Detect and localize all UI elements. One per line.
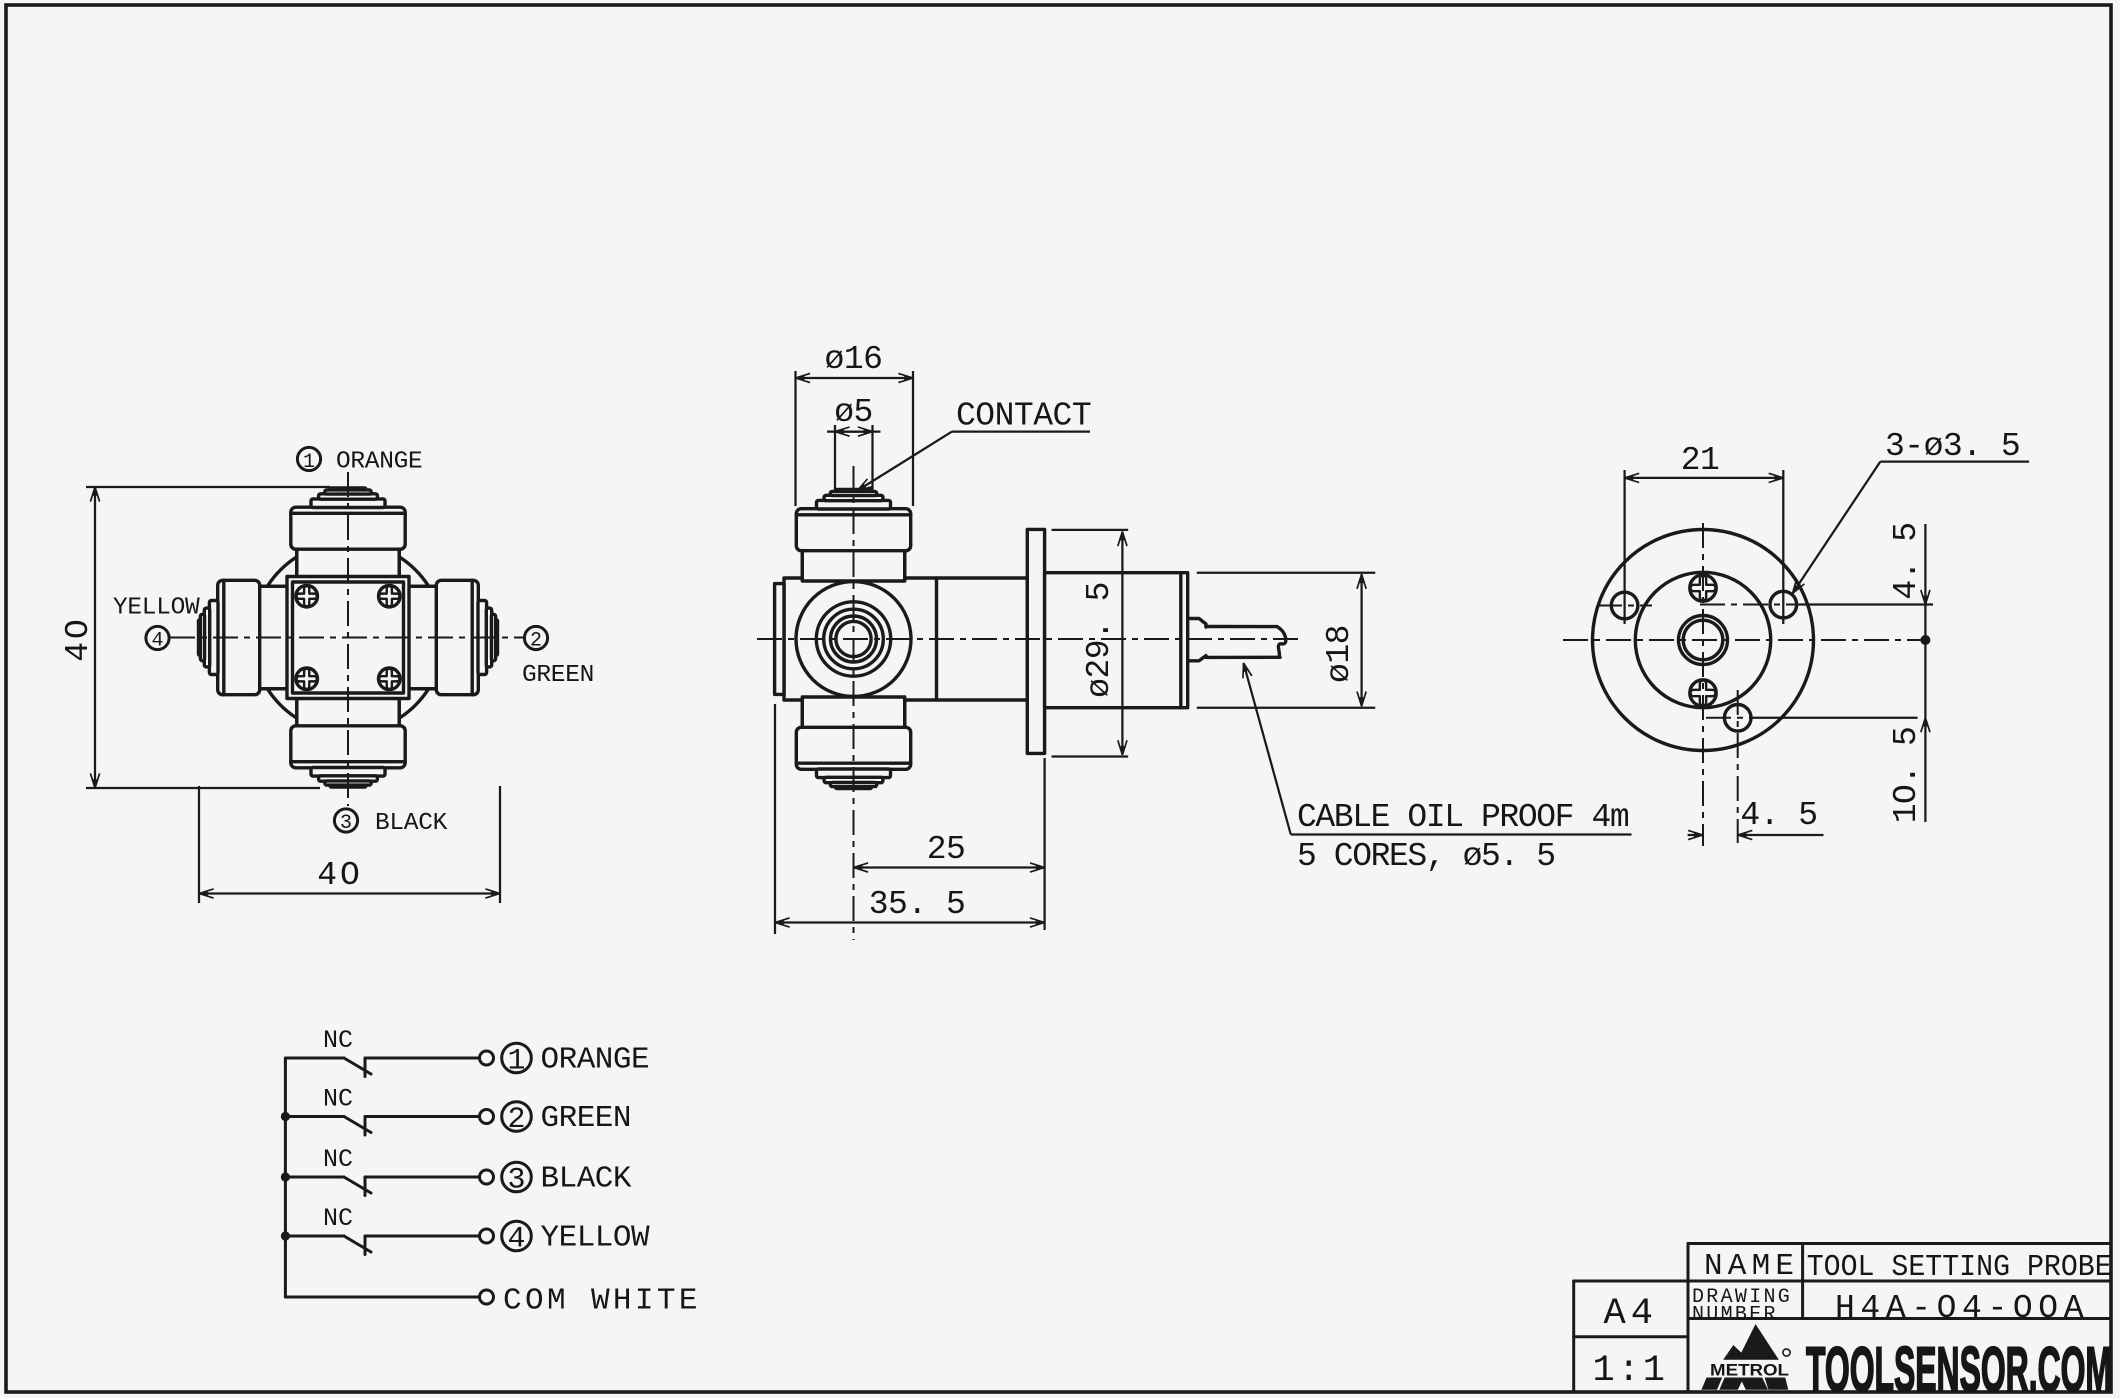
dimension 4.5 (bottom) xyxy=(1688,834,1703,836)
front view of probe head xyxy=(170,472,526,806)
svg-text:ø29. 5: ø29. 5 xyxy=(1081,582,1118,698)
svg-text:ø16: ø16 xyxy=(825,341,883,378)
svg-text:4: 4 xyxy=(507,1223,525,1257)
balloon 2 xyxy=(502,1102,532,1132)
square cover plate xyxy=(287,577,409,699)
vertical centerline xyxy=(853,466,855,940)
top contact housing xyxy=(796,488,910,581)
svg-text:ø18: ø18 xyxy=(1321,625,1358,683)
balloon 1 xyxy=(297,447,320,470)
svg-text:METROL: METROL xyxy=(1710,1361,1789,1380)
wire to terminal 3 xyxy=(365,1176,479,1179)
svg-text:35. 5: 35. 5 xyxy=(869,886,966,923)
terminal COM xyxy=(480,1290,494,1304)
vertical centerline xyxy=(1702,523,1704,846)
terminal 3 xyxy=(480,1170,494,1184)
balloon 1 xyxy=(502,1043,532,1073)
switch SW1 (NC) xyxy=(285,1058,371,1077)
svg-text:1: 1 xyxy=(303,451,315,474)
balloon 3 xyxy=(334,809,357,832)
contact 4 housing (left prong) xyxy=(197,580,290,694)
svg-text:CABLE OIL PROOF 4m: CABLE OIL PROOF 4m xyxy=(1297,799,1629,836)
switch SW2 (NC) xyxy=(285,1117,371,1136)
svg-text:1O. 5: 1O. 5 xyxy=(1888,727,1925,824)
plate screw top-left xyxy=(296,585,318,607)
flange end view xyxy=(1563,523,1930,846)
left end plate xyxy=(775,584,784,695)
bottom contact housing xyxy=(796,697,910,790)
horizontal centerline xyxy=(170,637,526,639)
balloon 3 xyxy=(502,1162,532,1192)
horizontal centerline xyxy=(1563,639,1925,641)
common bus wire xyxy=(284,1058,287,1297)
svg-text:COM WHITE: COM WHITE xyxy=(503,1284,697,1319)
svg-text:2: 2 xyxy=(507,1103,525,1137)
balloon 4 xyxy=(502,1221,532,1251)
cable gland xyxy=(1188,619,1206,661)
wire to terminal 1 xyxy=(365,1057,479,1060)
terminal 1 xyxy=(480,1051,494,1065)
dimension 10.5 xyxy=(1752,717,1918,719)
side view of probe xyxy=(757,466,1298,940)
dimension 40 (width) xyxy=(198,786,200,903)
svg-text:YELLOW: YELLOW xyxy=(541,1221,651,1256)
dimension 40 (height) xyxy=(86,486,330,488)
svg-text:25: 25 xyxy=(927,831,966,868)
svg-text:GREEN: GREEN xyxy=(541,1101,632,1136)
horizontal centerline xyxy=(757,638,1298,640)
probe body circle xyxy=(253,542,444,733)
svg-text:NC: NC xyxy=(323,1085,353,1114)
svg-text:3-ø3. 5: 3-ø3. 5 xyxy=(1885,428,2020,465)
body section line xyxy=(935,578,938,700)
wire to terminal 2 xyxy=(365,1115,479,1118)
svg-text:CONTACT: CONTACT xyxy=(956,398,1091,435)
svg-text:4O: 4O xyxy=(60,616,97,662)
main body block xyxy=(784,578,1027,700)
contact 2 housing (right prong) xyxy=(406,580,499,694)
dimension 35.5 xyxy=(774,704,776,934)
METROL logo xyxy=(1701,1324,1788,1390)
svg-text:ORANGE: ORANGE xyxy=(336,449,422,476)
balloon 4 xyxy=(146,626,169,649)
bottom hole centerline xyxy=(1737,690,1739,843)
svg-text:ORANGE: ORANGE xyxy=(541,1043,650,1078)
junction node xyxy=(281,1231,290,1240)
terminal 4 xyxy=(480,1229,494,1243)
cable xyxy=(1206,627,1280,658)
svg-text:1 : 1: 1 : 1 xyxy=(1593,1350,1665,1392)
svg-text:NC: NC xyxy=(323,1145,353,1174)
flange outer circle xyxy=(1593,530,1814,751)
svg-text:ø5: ø5 xyxy=(834,394,873,431)
title block xyxy=(1574,1244,2111,1392)
wire to COM terminal xyxy=(285,1296,479,1299)
switch SW3 (NC) xyxy=(285,1177,371,1196)
flange screw bottom xyxy=(1690,680,1716,706)
vertical centerline xyxy=(347,472,349,806)
dimension phi18 xyxy=(1197,572,1376,574)
svg-text:NUMBER: NUMBER xyxy=(1692,1304,1778,1327)
wire to terminal 4 xyxy=(365,1235,479,1238)
boss circle xyxy=(1635,572,1770,707)
plate screw top-right xyxy=(379,585,401,607)
svg-text:2: 2 xyxy=(530,630,542,653)
svg-text:4: 4 xyxy=(151,630,163,653)
svg-text:BLACK: BLACK xyxy=(375,810,448,837)
plate screw bottom-right xyxy=(379,668,401,690)
bolt hole left xyxy=(1611,592,1638,619)
svg-text:TOOL SETTING PROBE: TOOL SETTING PROBE xyxy=(1807,1250,2112,1285)
svg-text:4. 5: 4. 5 xyxy=(1740,797,1817,834)
terminal 2 xyxy=(480,1110,494,1124)
svg-text:5 CORES, ø5. 5: 5 CORES, ø5. 5 xyxy=(1297,838,1555,875)
plate screw bottom-left xyxy=(296,668,318,690)
svg-text:NC: NC xyxy=(323,1204,353,1233)
bolt hole bottom xyxy=(1724,705,1751,732)
svg-text:YELLOW: YELLOW xyxy=(113,595,200,622)
front contact boss circles xyxy=(796,582,911,697)
contact 3 housing (bottom prong) xyxy=(291,696,405,789)
junction node xyxy=(281,1172,290,1181)
dimension phi5 xyxy=(834,425,836,490)
dimension phi29.5 xyxy=(1052,529,1129,531)
svg-text:1: 1 xyxy=(507,1045,525,1079)
svg-text:3: 3 xyxy=(340,812,352,835)
contact 1 housing (top prong) xyxy=(291,486,405,579)
dimension 21 xyxy=(1623,470,1625,624)
svg-text:4O: 4O xyxy=(317,857,363,894)
svg-text:TOOLSENSOR.COM: TOOLSENSOR.COM xyxy=(1806,1335,2112,1398)
hole centerline marks xyxy=(1597,605,1652,607)
svg-text:NC: NC xyxy=(323,1026,353,1055)
center hole xyxy=(1679,616,1728,665)
mounting flange xyxy=(1027,529,1044,753)
dimension 4.5 (top right) xyxy=(1797,603,1933,605)
dimension 25 xyxy=(1043,758,1045,930)
svg-text:4. 5: 4. 5 xyxy=(1888,522,1925,599)
svg-text:GREEN: GREEN xyxy=(522,662,594,689)
junction node xyxy=(281,1112,290,1121)
dimension phi16 xyxy=(794,371,796,506)
bolt hole right xyxy=(1770,591,1797,618)
svg-text:21: 21 xyxy=(1681,442,1720,479)
flange screw top xyxy=(1690,575,1716,601)
rear cylinder xyxy=(1045,573,1188,708)
switch SW4 (NC) xyxy=(285,1236,371,1255)
svg-text:BLACK: BLACK xyxy=(541,1162,632,1197)
balloon 2 xyxy=(524,626,547,649)
svg-text:3: 3 xyxy=(507,1164,525,1198)
